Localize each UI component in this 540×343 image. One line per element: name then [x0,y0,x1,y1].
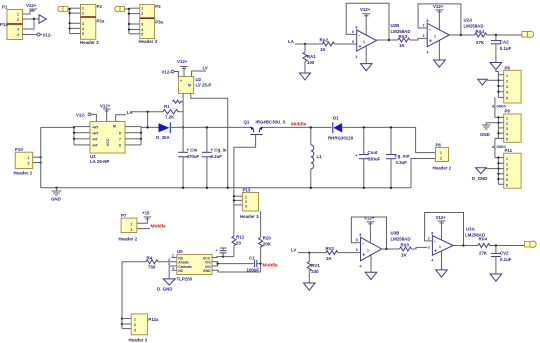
svg-text:LV 25-P: LV 25-P [196,83,212,88]
op-amp U3B [355,233,382,269]
svg-text:R1: R1 [164,104,170,109]
svg-text:1: 1 [134,318,136,322]
wire P10 to left bus [33,156,42,164]
wire U1 left pins [41,126,90,145]
connector P7 [119,213,138,242]
node LV (opamp input) [291,248,296,253]
svg-text:M: M [188,84,191,88]
connector P12a [129,314,160,343]
capacitor Cg_in [202,126,227,189]
svg-text:P13: P13 [243,188,251,193]
resistor RA2 [320,38,357,53]
ground D_GND (P11) [472,168,498,181]
wire rail D1 to P6 [342,127,436,152]
svg-text:4: 4 [360,265,362,269]
svg-text:RA2: RA2 [320,38,329,43]
svg-text:RV2: RV2 [326,246,335,251]
svg-text:V12+: V12+ [100,104,111,109]
ground GND (bottom rail) [51,187,62,202]
svg-text:4: 4 [17,33,19,37]
wire U2B feedback [346,3,390,41]
wire bullet to P2 bus [68,8,70,10]
ground GND (P9) [480,123,498,137]
wire LV input [298,252,326,254]
svg-text:100: 100 [307,60,315,65]
svg-text:1: 1 [131,223,133,227]
svg-text:P2a: P2a [97,19,105,24]
svg-text:750: 750 [148,265,156,270]
wire P1 pin1 to V12+ [23,10,34,15]
wire Q1 gate [234,135,256,193]
wire U2A feedback [418,4,462,36]
wire U2 sense drop [182,94,184,153]
capacitor CA2 [491,35,512,62]
resistor R20 [259,211,272,272]
svg-text:2: 2 [17,18,19,22]
node Middle (P7) [137,224,166,230]
svg-text:4: 4 [506,91,508,95]
capacitor Cin [178,148,199,190]
svg-text:V12+: V12+ [360,7,371,12]
svg-text:4: 4 [431,259,433,263]
ground (CA2) [490,63,502,70]
resistor R2 (small, at U2) [173,100,184,103]
svg-text:Header 2: Header 2 [14,171,33,176]
svg-text:7: 7 [119,138,121,142]
wire U3B feedback [351,217,387,250]
svg-text:20K: 20K [263,242,272,247]
wire U2 to node LV [192,71,206,77]
svg-text:U3B: U3B [391,231,400,236]
wire P8 bus [497,75,503,98]
svg-text:3: 3 [82,22,84,26]
svg-text:R4: R4 [147,256,153,261]
node LV [203,66,208,71]
node Middle (R20) [263,263,279,269]
svg-text:2: 2 [131,228,133,232]
diode D1 RHRG30120 [328,116,354,141]
svg-text:D_GND: D_GND [157,287,172,292]
svg-text:CA2: CA2 [500,40,509,45]
svg-text:RV3: RV3 [401,243,410,248]
svg-text:6: 6 [352,30,354,34]
svg-text:IRG4BC30U_S: IRG4BC30U_S [256,120,286,125]
power +15 (P7) [137,211,151,224]
svg-text:P3: P3 [155,4,161,9]
ground (U3B) [365,255,377,280]
svg-text:1: 1 [172,254,174,258]
svg-text:5: 5 [356,248,358,252]
svg-text:C1: C1 [249,256,255,261]
ground (P8 left) [478,79,499,85]
power V12+ (U2) [177,59,188,77]
svg-text:Cg_out: Cg_out [395,154,411,159]
svg-text:2: 2 [423,24,425,28]
ground (RA1) [300,73,311,80]
wire R4 to P12a [121,262,131,329]
node A_GND5 [492,97,506,117]
inductor L1 [310,126,323,189]
wire bottom rail to P6 [411,159,436,188]
power V12+ (U3B) [364,216,375,243]
svg-text:5: 5 [506,96,508,100]
svg-text:P2: P2 [97,4,103,9]
svg-text:-HT: -HT [92,138,99,142]
connector P13 [240,188,259,220]
ground (U2A) [434,41,446,68]
svg-text:GND: GND [203,269,211,273]
svg-text:4: 4 [356,55,358,59]
svg-text:1: 1 [506,74,508,78]
svg-text:5: 5 [141,32,143,36]
svg-text:P8: P8 [505,66,511,71]
svg-text:4: 4 [506,173,508,177]
svg-text:RA3: RA3 [399,34,408,39]
svg-text:1K: 1K [401,253,407,258]
op-amp U2B [351,26,377,60]
svg-text:2: 2 [28,162,30,166]
svg-text:27K: 27K [479,251,488,256]
svg-text:V12+: V12+ [433,4,444,9]
capacitor Cout [355,126,381,189]
svg-text:V12+: V12+ [26,3,37,8]
wire R1 tap to rail [146,111,148,129]
svg-text:-HT: -HT [92,144,99,148]
node A_GND3 [492,138,506,157]
wire U5 cathode to D_GND [169,266,177,279]
svg-text:1: 1 [506,157,508,161]
wire U1 right pins [125,127,142,145]
svg-text:8: 8 [356,26,358,30]
wire P2 bus [70,8,81,33]
svg-text:M: M [113,125,116,129]
svg-text:470uF: 470uF [187,154,200,159]
node P1 junction [33,18,35,20]
connector X3 bullet [115,6,125,12]
svg-text:P1: P1 [2,5,8,10]
svg-text:Middle: Middle [263,263,279,269]
wire P1 pin4 to V12- [23,34,38,36]
capacitor Cg_out [386,126,410,189]
resistor RV3 [387,243,428,258]
svg-text:LM258AD: LM258AD [391,237,411,242]
svg-text:+ Cin: + Cin [187,148,198,153]
svg-text:U2: U2 [196,77,202,82]
svg-text:3: 3 [506,168,508,172]
svg-text:D1: D1 [333,116,339,121]
svg-text:U2A: U2A [464,18,474,23]
ground D_GND (U5) [157,279,175,292]
svg-text:1: 1 [434,35,436,39]
wire rail to diode D_30A [141,126,159,128]
svg-text:1K: 1K [399,43,405,48]
wire rail Q1 to D1 [263,126,332,128]
power V12+ (P1) [26,3,37,11]
svg-text:CV2: CV2 [500,251,509,256]
svg-text:U3A: U3A [466,227,476,232]
svg-text:2: 2 [141,12,143,16]
svg-text:5: 5 [506,178,508,182]
svg-text:RV4: RV4 [479,236,488,241]
connector P10 [14,147,33,176]
svg-text:+ Cg_in: + Cg_in [211,148,227,153]
svg-text:2: 2 [245,200,247,204]
node P3 bus junctions [128,8,130,31]
IC U1 LA 25-NP [90,122,125,165]
svg-text:1: 1 [363,40,365,44]
svg-text:LV: LV [203,66,208,71]
svg-text:+: + [434,249,437,255]
svg-text:D_GND: D_GND [472,176,487,181]
svg-text:Header 2: Header 2 [433,166,452,171]
svg-text:1: 1 [506,117,508,121]
node LA (opamp input) [288,39,295,44]
svg-text:GND: GND [51,197,61,202]
resistor R4 [122,256,177,270]
svg-text:Middle: Middle [291,122,307,128]
svg-text:P11: P11 [505,148,513,153]
resistor RV2 [326,246,361,261]
svg-text:5: 5 [352,40,354,44]
svg-text:3: 3 [17,28,19,32]
transducer U2 LV 25-P [178,77,211,94]
svg-text:LV: LV [291,248,296,253]
wire P3 bus [129,8,140,34]
ground (U3A) [436,251,448,277]
svg-text:5: 5 [82,32,84,36]
wire U5 GND line [212,270,261,272]
ground (CV2) [490,274,502,281]
resistor RA4 [461,29,522,45]
resistor RA1 [303,44,316,73]
connector P6 [433,143,452,171]
wire P9 bus [495,116,504,138]
wire U3A feedback [425,213,465,247]
svg-text:1: 1 [245,196,247,200]
svg-text:8: 8 [360,233,362,237]
node P2 bus junctions [69,8,71,30]
svg-text:0.3uF: 0.3uF [211,154,223,159]
label U3A [465,227,485,238]
svg-text:+: + [362,253,365,259]
svg-text:+: + [216,249,218,253]
svg-text:V12+: V12+ [364,216,375,221]
svg-text:V12-: V12- [43,33,53,38]
ground (U2B) [361,46,373,71]
svg-text:+: + [429,39,432,45]
svg-text:+HT: +HT [92,131,99,135]
svg-text:4: 4 [427,51,429,55]
IC U5 TLP250 [177,249,213,282]
wire bottom rail [41,187,411,189]
power V12- (U2) [162,70,179,77]
svg-text:0.3uF: 0.3uF [396,160,408,165]
svg-text:6: 6 [356,238,358,242]
connector P11 [504,148,521,188]
svg-text:2: 2 [82,12,84,16]
wire U5 pin4 stub [172,269,177,271]
svg-text:V12+: V12+ [177,59,188,64]
connector P3 [139,4,164,44]
port arrow (P1) [39,15,46,23]
svg-text:1: 1 [82,7,84,11]
svg-text:8: 8 [427,19,429,23]
svg-text:8: 8 [119,144,121,148]
wire U5 V/O tie [212,262,254,266]
svg-text:+: + [355,153,358,158]
svg-text:2: 2 [506,122,508,126]
power V12+ (U3A) [436,215,447,241]
svg-text:20: 20 [236,241,241,246]
svg-text:VCC: VCC [106,138,110,146]
ground (P8 top) [496,70,499,75]
svg-text:U2B: U2B [391,23,400,28]
svg-text:3: 3 [134,329,136,333]
power V12+ (U1) [100,104,111,122]
svg-text:R12: R12 [236,235,245,240]
svg-text:TLP250: TLP250 [177,277,193,282]
svg-text:V12-: V12- [76,113,86,118]
svg-text:27K: 27K [476,40,485,45]
svg-text:GND: GND [480,132,490,137]
wire bullet to P3 bus [125,8,129,10]
wire U5 VCC line [212,256,234,258]
svg-text:1: 1 [17,13,19,17]
svg-text:1K: 1K [326,256,332,261]
svg-text:P7: P7 [121,213,127,218]
svg-text:+: + [359,44,362,50]
resistor RV4 [464,236,525,255]
svg-text:-: - [180,88,181,92]
svg-text:D_30A: D_30A [156,135,170,140]
svg-text:Q1: Q1 [244,120,250,125]
svg-text:1: 1 [367,249,369,253]
svg-text:1: 1 [28,156,30,160]
svg-text:NC: NC [178,269,183,273]
connector P8 [504,66,521,104]
svg-text:+HT: +HT [92,125,99,129]
svg-text:P10: P10 [15,147,23,152]
svg-text:1: 1 [439,245,441,249]
svg-text:0.1uF: 0.1uF [500,257,512,262]
svg-text:Header 3: Header 3 [139,39,158,44]
svg-text:Cout: Cout [368,150,379,155]
svg-text:3: 3 [141,23,143,27]
connector P9 [504,109,521,143]
svg-text:R20: R20 [263,236,272,241]
svg-text:L1: L1 [317,154,323,159]
label U2A [464,18,484,29]
svg-text:LA 25-NP: LA 25-NP [90,159,109,164]
power V12+ (U2A) [433,4,444,30]
svg-text:6: 6 [506,183,508,187]
svg-text:+15: +15 [142,211,150,216]
svg-text:P6: P6 [436,143,442,148]
wire U1 to node LA [116,115,127,122]
svg-text:Header 3: Header 3 [240,214,259,219]
svg-text:V12-: V12- [162,70,172,75]
svg-text:Header 3: Header 3 [80,40,99,45]
connector X1 bullet (LA out) [522,31,534,37]
svg-text:4: 4 [506,132,508,136]
svg-text:1: 1 [440,151,442,155]
ground (RV1) [304,283,316,290]
svg-text:Middle: Middle [151,224,167,230]
transistor Q1 IRG4BC30U_S [244,120,286,135]
pin numbers U5 [168,254,174,271]
svg-text:RV1: RV1 [311,263,320,268]
svg-text:8: 8 [431,232,433,236]
svg-text:2: 2 [134,323,136,327]
svg-text:LM258AD: LM258AD [464,24,484,29]
svg-text:V12+: V12+ [436,215,447,220]
connector P2 [80,4,105,45]
svg-text:3: 3 [506,85,508,89]
svg-text:5: 5 [506,138,508,142]
op-amp U2A [422,19,449,55]
svg-text:1K: 1K [320,47,326,52]
node Middle (rail) [291,122,307,128]
wire P1 pin3 [23,19,35,29]
svg-text:RHRG30120: RHRG30120 [328,136,354,141]
power V12+ (U2B) [360,7,371,35]
resistor RA3 [389,34,427,48]
svg-text:RA4: RA4 [476,29,485,34]
svg-text:RA1: RA1 [307,54,316,59]
power V12- (U1) [76,113,96,122]
wire P13 pins to gate bus [233,195,243,205]
resistor RV1 [307,253,320,283]
wire U5 pin1 stub [172,257,177,259]
svg-text:+: + [180,79,182,83]
svg-text:P3a: P3a [155,20,163,25]
op-amp U3A [427,232,453,263]
resistor R1 [131,104,183,120]
connector X4 bullet (LV out) [524,241,536,247]
svg-text:Header 3: Header 3 [129,338,148,343]
svg-text:3: 3 [245,205,247,209]
svg-text:330uF: 330uF [368,156,381,161]
connector X2 bullet [58,6,68,12]
power V12- (P1) [37,33,52,38]
label U2B [391,23,411,34]
svg-text:2: 2 [428,237,430,241]
svg-text:U5: U5 [177,249,183,254]
svg-text:7.2K: 7.2K [165,115,175,120]
diode D_30A [156,122,170,140]
svg-text:1: 1 [141,7,143,11]
connector P1 [0,5,23,40]
wire U2 return loop [191,94,229,190]
wire left vertical bus [40,127,42,187]
svg-text:240: 240 [311,269,319,274]
wire top rail diode to Q1 [170,126,250,128]
svg-text:4: 4 [82,27,84,31]
label U3B [391,231,411,242]
svg-text:LA: LA [127,110,134,115]
svg-text:2: 2 [506,162,508,166]
capacitor C1 [247,256,261,273]
wire LA input [295,43,322,45]
svg-text:0.1uF: 0.1uF [500,46,512,51]
resistor R12 [232,192,245,257]
svg-text:3: 3 [423,34,425,38]
svg-text:6: 6 [119,131,121,135]
svg-text:Header 2: Header 2 [119,237,138,242]
svg-text:P12a: P12a [148,317,159,322]
svg-text:3: 3 [428,246,430,250]
svg-text:LA: LA [288,39,295,44]
